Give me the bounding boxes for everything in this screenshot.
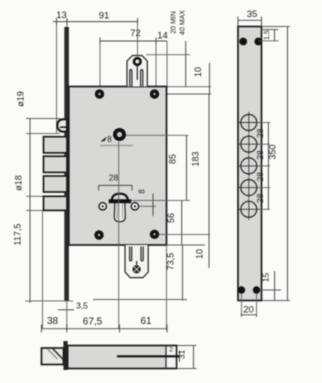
hub extension right — [126, 134, 189, 136]
mechanism line — [100, 145, 133, 147]
svg-text:73,5: 73,5 — [166, 253, 176, 271]
faceplate (edge view vertical dark band) — [64, 27, 69, 301]
bolt 3 — [44, 176, 68, 192]
svg-text:15: 15 — [261, 273, 271, 283]
R4 extension lines — [26, 195, 44, 197]
bottom dim row 38 / 67,5 / 61 — [42, 316, 168, 333]
svg-text:85: 85 — [168, 154, 178, 164]
fork slot left — [130, 70, 132, 87]
dome — [112, 194, 128, 202]
svg-text:61: 61 — [140, 316, 152, 327]
dim 15 — [260, 271, 281, 301]
svg-text:3,5: 3,5 — [76, 301, 88, 311]
case bottom view bar — [68, 346, 177, 369]
top right small dim 1,5 — [258, 30, 278, 41]
svg-text:28: 28 — [109, 173, 119, 183]
svg-text:28: 28 — [255, 128, 265, 138]
body right edge extension down — [166, 245, 168, 330]
hub (follower) — [113, 128, 126, 141]
svg-text:183: 183 — [191, 151, 201, 166]
svg-text:ø18: ø18 — [14, 175, 24, 191]
lock body case — [69, 87, 167, 246]
bottom rod guide fork — [125, 245, 148, 278]
latch extension lines — [26, 118, 60, 120]
fork screw bottom — [133, 265, 141, 273]
dim 56 — [166, 200, 182, 245]
svg-text:28: 28 — [255, 150, 265, 160]
side hole right — [131, 203, 138, 210]
side hole left — [99, 203, 106, 210]
svg-text:14: 14 — [157, 31, 168, 42]
svg-text:10: 10 — [195, 249, 205, 259]
cylinder centerline down — [118, 142, 120, 329]
dim 73,5 — [166, 245, 183, 301]
faceplate bottom extension lines — [25, 300, 73, 302]
dim 183 — [191, 94, 210, 235]
svg-text:28: 28 — [255, 172, 265, 182]
dim 350 — [262, 27, 290, 301]
extensions from circles to 28 dim line — [257, 123, 270, 210]
bolt tip (hatched) — [42, 348, 64, 365]
extension line from 13 left tick — [56, 26, 58, 135]
dim 35 — [238, 9, 262, 27]
svg-text:67,5: 67,5 — [83, 317, 103, 328]
dim 85 — [168, 135, 187, 200]
svg-text:350: 350 — [268, 144, 278, 159]
top fixing dots — [239, 38, 247, 46]
svg-text:38: 38 — [47, 316, 59, 327]
slot leader line — [117, 355, 180, 357]
bolt 4 — [44, 196, 68, 210]
dim 10 bottom — [195, 234, 210, 268]
dim 10 top right — [193, 63, 210, 94]
faceplate edge vertical bar — [63, 341, 67, 370]
fork slot right — [141, 70, 143, 87]
body bottom extension — [167, 244, 206, 246]
top screw holes — [95, 89, 104, 98]
svg-text:56: 56 — [166, 213, 176, 223]
dim 31 line — [177, 346, 197, 369]
dim 8 right of cylinder — [138, 189, 157, 216]
svg-text:72: 72 — [130, 28, 141, 39]
cylinder extension right — [131, 199, 190, 201]
svg-text:20: 20 — [243, 305, 254, 316]
svg-text:28: 28 — [255, 193, 265, 203]
svg-text:20 MIN: 20 MIN — [171, 11, 178, 34]
svg-text:10: 10 — [193, 67, 203, 77]
dim 28 above cylinder — [99, 173, 132, 191]
20 MIN / 40 MAX labels (rotated) — [171, 10, 187, 35]
dim line 13/91 top — [53, 10, 138, 27]
extension body top right — [167, 86, 212, 88]
faceplate strip — [238, 27, 262, 301]
svg-text:8: 8 — [138, 189, 147, 194]
dim line 72/14 — [100, 28, 168, 45]
bolt 2 — [44, 156, 68, 172]
key hole circles with crosses — [241, 115, 257, 218]
8 leader at hub — [101, 137, 108, 142]
top rod guide fork — [127, 56, 147, 87]
svg-text:13: 13 — [56, 10, 67, 21]
bolt tip extension down — [42, 211, 44, 330]
stem — [114, 203, 125, 222]
cam bar through cylinder — [109, 199, 131, 203]
bolt 1 — [44, 137, 68, 153]
bottom screw extension — [159, 233, 210, 235]
dim line 28 column — [267, 123, 269, 210]
svg-text:40 MAX: 40 MAX — [180, 10, 187, 35]
svg-text:2: 2 — [169, 347, 173, 354]
latch — [57, 119, 67, 131]
svg-text:31: 31 — [177, 350, 187, 360]
svg-text:91: 91 — [99, 11, 110, 22]
svg-text:ø19: ø19 — [16, 91, 26, 107]
extension fork top right — [146, 54, 190, 56]
faceplate bottom extension to dim row — [66, 301, 68, 330]
svg-text:8: 8 — [107, 135, 112, 144]
extension top screws line right — [159, 93, 211, 95]
bottom fixing dots — [238, 286, 245, 293]
dim 20 bottom — [241, 294, 258, 318]
rod centerline above fork — [137, 22, 139, 56]
fork screw — [134, 58, 141, 65]
svg-text:35: 35 — [247, 9, 258, 20]
cylinder keyhole profile — [109, 194, 131, 222]
extension lines down to screw holes — [99, 45, 101, 92]
dim 20min/40max vertical — [185, 41, 187, 87]
left dim column — [29, 119, 31, 304]
bottom screw holes — [94, 230, 103, 239]
svg-text:117,5: 117,5 — [13, 224, 23, 246]
svg-text:1,5: 1,5 — [264, 30, 271, 40]
